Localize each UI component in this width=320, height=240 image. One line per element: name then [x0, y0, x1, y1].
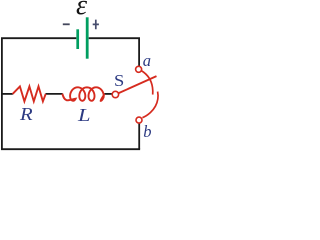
- label S: [114, 73, 124, 90]
- switch arm blade: [118, 76, 156, 93]
- battery positive plate (long): [86, 17, 89, 58]
- battery minus sign: [63, 23, 70, 25]
- wire top rail right + right rail down to contact a: [89, 38, 139, 66]
- battery plus sign: [93, 20, 99, 30]
- switch throw arc upper segment (from a): [142, 71, 153, 95]
- resistor R zigzag: [13, 86, 46, 101]
- label b: [143, 124, 151, 141]
- wire outer loop: top-left rail, left rail, bottom rail: [2, 38, 140, 149]
- contact b circle: [136, 117, 142, 123]
- label R: [20, 106, 33, 124]
- wire middle branch: left rail to resistor: [2, 93, 13, 95]
- emf label epsilon: [71, 0, 92, 20]
- label a: [143, 53, 151, 70]
- label L: [78, 106, 91, 124]
- switch throw arc lower segment (to b): [142, 92, 158, 118]
- battery negative plate (short): [76, 29, 79, 49]
- inductor L coil: [62, 87, 104, 101]
- wire between resistor and inductor: [46, 93, 63, 95]
- wire between inductor and switch pivot: [104, 93, 112, 95]
- switch pivot contact circle S: [112, 91, 118, 97]
- wire from contact b down to bottom rail: [138, 123, 140, 149]
- contact a circle: [136, 66, 142, 72]
